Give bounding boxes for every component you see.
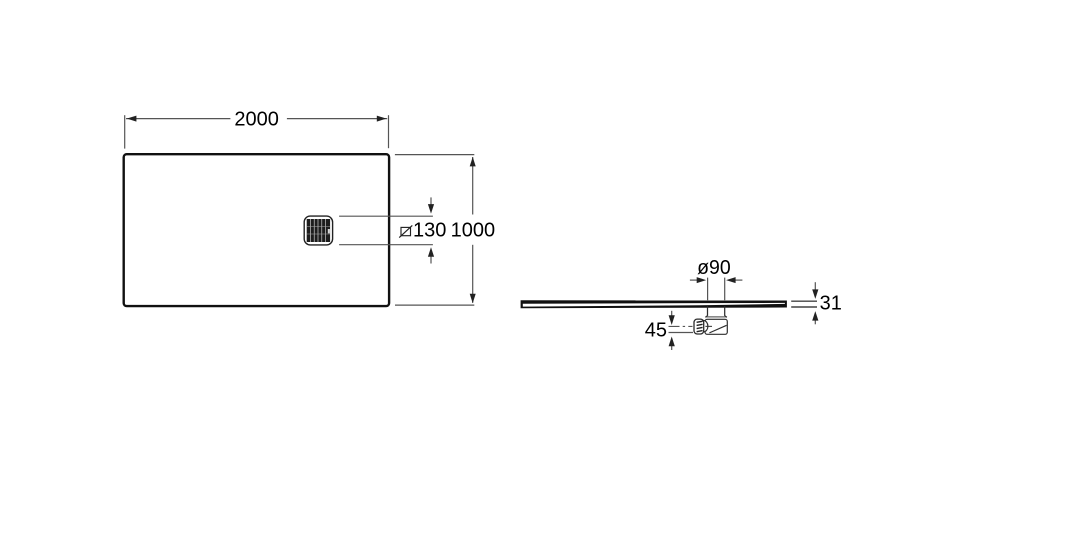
outlet crosshair — [705, 325, 712, 327]
dimension line 1000 upper segment — [472, 157, 474, 215]
drain grate outer square — [304, 216, 332, 245]
elbow diagonal edge — [709, 325, 726, 333]
ribbed connector nut — [694, 319, 704, 334]
arrowhead left of 2000 — [127, 116, 137, 122]
svg-text:45: 45 — [645, 319, 667, 341]
arrow down (31 top) — [812, 282, 818, 299]
31 reference line top — [791, 300, 817, 302]
arrow up (31 bottom) — [812, 311, 818, 324]
tray outline (top view) — [124, 154, 389, 306]
label 1000 (vertical dimension) — [451, 220, 496, 242]
label 2000 — [234, 109, 279, 131]
label 31 — [820, 293, 842, 315]
extension line left (for 2000) — [124, 115, 126, 148]
arrow up to drain bottom leader — [428, 247, 434, 263]
45 lower reference line — [669, 332, 694, 334]
drain leader line top — [339, 215, 433, 217]
label diameter 90 — [697, 257, 731, 279]
label 130 — [413, 220, 446, 242]
drain pipe below tray — [708, 306, 725, 316]
axis centerline (dash-dot) — [669, 325, 693, 327]
svg-text:ø90: ø90 — [697, 257, 731, 279]
elbow flange band — [705, 316, 727, 320]
extension line bottom (for 1000) — [395, 304, 474, 306]
extension line right (for 2000) — [388, 115, 390, 148]
extension line left (for diameter 90) — [707, 278, 709, 301]
arrow up (45 bottom) — [669, 337, 675, 351]
arrow pointing right (diameter 90 left) — [690, 277, 706, 283]
square-drain symbol (square with slash) — [399, 225, 412, 237]
svg-text:1000: 1000 — [451, 220, 496, 242]
extension line top (for 1000) — [395, 154, 474, 156]
svg-text:130: 130 — [413, 220, 446, 242]
svg-text:31: 31 — [820, 293, 842, 315]
extension line right (for diameter 90) — [724, 278, 726, 301]
31 reference line bottom — [791, 306, 817, 308]
drain grate dark insert — [307, 219, 330, 242]
trap elbow body — [705, 319, 727, 334]
arrowhead right of 2000 — [377, 116, 387, 122]
arrow down (45 top) — [669, 311, 675, 325]
dimension line 2000 right segment — [287, 118, 387, 120]
label 45 — [645, 319, 667, 341]
svg-text:2000: 2000 — [234, 109, 279, 131]
drain leader line bottom — [339, 244, 433, 246]
arrowhead top of 1000 — [470, 157, 476, 167]
arrowhead bottom of 1000 — [470, 294, 476, 304]
arrow down to drain top leader — [428, 197, 434, 213]
dimension line 1000 lower segment — [472, 245, 474, 303]
trap outlet mouth (ellipse) — [699, 320, 708, 332]
tray profile (side view) — [521, 300, 787, 308]
arrow pointing left (diameter 90 right) — [726, 277, 742, 283]
dimension line 2000 left segment — [126, 118, 230, 120]
